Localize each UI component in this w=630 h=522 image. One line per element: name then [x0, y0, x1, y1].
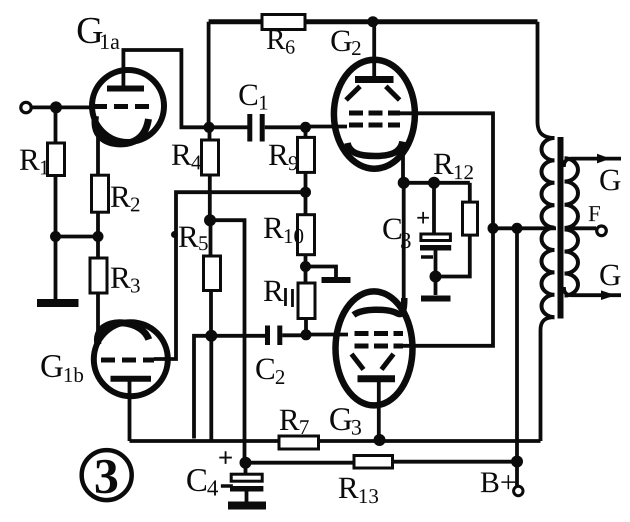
- resistor R7: [279, 436, 541, 449]
- wire cathode to R12: [404, 181, 470, 185]
- label - C4: [221, 484, 233, 488]
- input terminal: [21, 102, 31, 112]
- node C1 left junction: [204, 122, 215, 133]
- wire R13 line: [246, 461, 355, 465]
- label R10: [263, 210, 304, 248]
- svg-text:4: 4: [191, 150, 202, 174]
- node cathode junction: [398, 177, 410, 189]
- svg-text:R: R: [19, 142, 40, 177]
- svg-text:5: 5: [198, 231, 209, 255]
- wire G2 cathode lead: [401, 146, 405, 183]
- label G2: [330, 23, 362, 60]
- svg-text:+: +: [416, 205, 430, 232]
- label G1b: [40, 349, 84, 387]
- node C3 bottom junction: [430, 271, 442, 283]
- wire top supply rail: [209, 19, 262, 24]
- label R9: [268, 137, 299, 175]
- svg-text:R: R: [338, 470, 359, 505]
- node C4 junction: [240, 457, 252, 469]
- label C2: [255, 351, 286, 389]
- ground (grid return): [306, 267, 351, 281]
- label C3: [382, 211, 412, 253]
- svg-text:F: F: [588, 201, 601, 226]
- resistor R3: [90, 237, 107, 346]
- resistor R6: [262, 15, 538, 30]
- svg-text:B+: B+: [480, 466, 517, 499]
- svg-text:R: R: [263, 273, 284, 308]
- wire secondary bottom lead: [564, 287, 621, 300]
- node B+ junction: [511, 456, 523, 468]
- ground (C4): [228, 502, 266, 510]
- label R13: [338, 470, 379, 508]
- svg-text:R: R: [171, 137, 192, 172]
- wire G2 screen to right: [399, 113, 493, 345]
- svg-text:7: 7: [299, 415, 310, 439]
- label R11: [263, 273, 293, 308]
- svg-text:3: 3: [400, 228, 412, 253]
- ground (left): [37, 237, 79, 304]
- wire C2 junction branch: [194, 336, 211, 439]
- node R4/R5 junction: [204, 214, 216, 226]
- transformer T1 core: [558, 137, 564, 319]
- transformer secondary winding upper: [565, 158, 579, 228]
- resistor R10: [298, 192, 315, 266]
- node C1/R9 junction: [300, 122, 311, 133]
- node C3 top junction: [428, 177, 440, 189]
- label C4: [186, 463, 219, 501]
- label R3: [110, 260, 141, 298]
- svg-text:G: G: [599, 257, 621, 292]
- svg-text:C: C: [186, 463, 208, 499]
- wire C2 to G3 grid: [306, 333, 348, 337]
- node C2 right junction: [301, 329, 312, 340]
- node on feedback line: [171, 231, 178, 238]
- svg-text:10: 10: [283, 224, 304, 248]
- svg-text:R: R: [268, 137, 289, 172]
- svg-text:13: 13: [358, 484, 379, 508]
- resistor R12: [436, 183, 478, 277]
- svg-text:1: 1: [258, 90, 269, 114]
- label R1: [19, 142, 50, 180]
- triode G1b: [94, 322, 168, 396]
- wire input to grid G1a: [32, 106, 93, 110]
- resistor R9: [298, 127, 315, 192]
- wire bottom line to R7: [130, 439, 280, 443]
- svg-text:R: R: [266, 24, 286, 56]
- beam tetrode G2: [334, 60, 415, 169]
- svg-text:G: G: [330, 23, 352, 58]
- label R7: [279, 402, 310, 439]
- wire junction row: [56, 235, 99, 239]
- wire left vertical from rail: [207, 22, 211, 128]
- svg-text:9: 9: [288, 151, 299, 175]
- svg-text:6: 6: [285, 36, 295, 58]
- resistor R4: [202, 127, 219, 220]
- svg-text:1: 1: [39, 155, 50, 179]
- triode G1a: [92, 70, 164, 144]
- transformer secondary winding lower: [565, 230, 579, 296]
- node top rail / G2 plate junction: [367, 16, 378, 27]
- svg-text:2: 2: [275, 365, 286, 389]
- label G1a: [76, 10, 120, 54]
- capacitor C1: [250, 114, 262, 142]
- wire G3 cathode lead: [402, 183, 406, 301]
- terminal B+: [514, 462, 523, 496]
- svg-text:R: R: [279, 402, 300, 437]
- svg-text:C: C: [255, 351, 276, 386]
- svg-text:2: 2: [130, 192, 141, 216]
- label R4: [171, 137, 202, 175]
- label - C3: [421, 255, 433, 259]
- wire to transformer bottom: [541, 317, 555, 441]
- label R12: [433, 146, 474, 184]
- transformer primary winding: [541, 138, 554, 317]
- capacitor C4 (electrolytic): [230, 463, 263, 502]
- svg-text:G: G: [599, 162, 621, 197]
- wire G1a plate to rail: [123, 50, 209, 127]
- wire G1b grid feedback: [154, 192, 306, 359]
- capacitor C2: [268, 326, 280, 346]
- svg-text:R: R: [263, 210, 284, 245]
- node G3 plate junction: [374, 434, 386, 446]
- label R6: [266, 24, 295, 59]
- terminal F tap: [565, 226, 607, 236]
- wire G1a cathode to R2: [96, 131, 100, 175]
- resistor R13: [354, 456, 517, 469]
- svg-text:1a: 1a: [99, 29, 120, 54]
- resistor R1: [48, 107, 65, 236]
- svg-text:3: 3: [94, 448, 119, 504]
- capacitor C3 (electrolytic): [420, 183, 451, 277]
- wire R4/R5 junction to C4: [210, 220, 245, 463]
- wire B+ riser: [515, 228, 519, 461]
- resistor R11: [298, 267, 315, 336]
- svg-text:R: R: [110, 260, 131, 295]
- wire rail to primary: [538, 22, 555, 138]
- node screen riser / centre tap: [488, 223, 499, 234]
- node centre tap / B+ riser: [512, 223, 523, 234]
- svg-text:3: 3: [130, 273, 141, 297]
- node C2 left junction: [205, 330, 217, 342]
- node R9/R10 junction: [300, 187, 311, 198]
- resistor R2: [92, 175, 109, 236]
- node R1 bottom junction: [50, 231, 61, 242]
- svg-text:12: 12: [453, 160, 474, 184]
- label G3: [329, 402, 362, 440]
- svg-text:G: G: [329, 402, 353, 438]
- svg-text:3: 3: [351, 415, 362, 440]
- svg-text:G: G: [40, 349, 64, 385]
- node input junction: [50, 101, 62, 113]
- svg-text:R: R: [178, 219, 199, 254]
- node R10/R11 junction: [300, 261, 311, 272]
- beam tetrode G3: [336, 291, 413, 405]
- wire C1 left: [209, 125, 248, 129]
- svg-text:4: 4: [207, 475, 219, 500]
- wire G2 plate lead: [372, 22, 376, 77]
- wire secondary top lead: [564, 154, 621, 167]
- wire C1 right to G2 grid: [265, 125, 306, 129]
- svg-text:2: 2: [351, 36, 362, 60]
- svg-text:R: R: [433, 146, 454, 181]
- svg-text:C: C: [238, 77, 259, 112]
- svg-text:+: +: [218, 442, 233, 472]
- label R2: [110, 179, 141, 217]
- resistor R5: [204, 220, 221, 336]
- ground (C3): [421, 277, 451, 299]
- wire G3 plate lead: [377, 381, 381, 440]
- wire centre tap: [493, 226, 556, 230]
- figure number 3: [82, 448, 132, 504]
- svg-text:R: R: [110, 179, 131, 214]
- node R2/R3 junction: [93, 231, 104, 242]
- wire R5 bottom to R7 line: [209, 336, 213, 442]
- label C1: [238, 77, 269, 115]
- wire G1b plate down to C2 line: [128, 381, 132, 441]
- wire C2 line: [211, 334, 265, 338]
- label R5: [178, 219, 209, 255]
- svg-text:1b: 1b: [63, 363, 84, 387]
